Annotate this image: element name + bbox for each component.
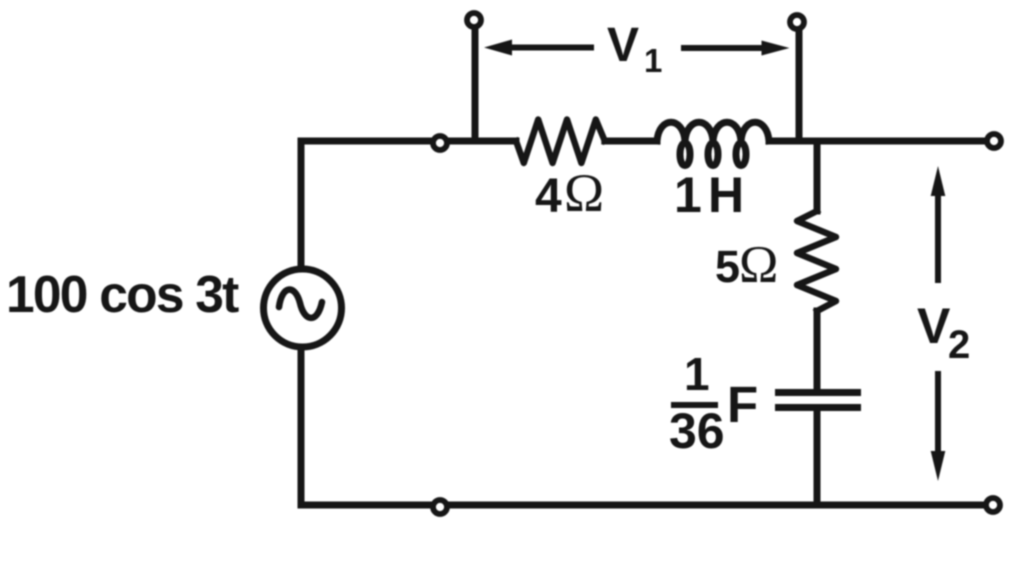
terminal node on top wire [433, 136, 447, 150]
wire left vertical below source [298, 347, 305, 505]
ac source circle [264, 269, 342, 347]
terminal node top right [987, 134, 1001, 148]
wire left vertical above source [298, 141, 305, 269]
svg-text:Ω: Ω [739, 236, 778, 294]
label fraction bar [671, 402, 718, 408]
V2 bottom arrow shaft [935, 371, 941, 455]
resistor R 5ohm vertical zigzag [797, 211, 836, 311]
wire below capacitor [814, 408, 821, 505]
inductor loop 1 [680, 143, 690, 166]
svg-text:2: 2 [948, 323, 970, 367]
svg-text:4: 4 [535, 170, 562, 223]
capacitor C top plate [775, 389, 861, 396]
V2 top arrow head [931, 166, 946, 196]
wire top from left corner to resistor [301, 138, 516, 145]
svg-text:1: 1 [684, 348, 710, 400]
capacitor C bottom plate [775, 404, 861, 411]
resistor R 4ohm zigzag [516, 120, 605, 164]
V1 right arrow head [762, 41, 790, 56]
V1 right arrow shaft [681, 45, 765, 51]
wire right branch top [814, 141, 821, 211]
svg-text:5: 5 [715, 241, 740, 292]
inductor loop 2 [708, 143, 718, 166]
wire V1 right terminal vertical [796, 28, 803, 141]
terminal node on bottom wire [433, 500, 447, 514]
inductor L 1H coil bumps [657, 122, 769, 141]
V2 bottom arrow head [931, 451, 946, 481]
svg-text:V: V [607, 19, 639, 72]
svg-text:Ω: Ω [564, 163, 604, 223]
terminal node V1 right [790, 15, 804, 29]
svg-text:1: 1 [674, 167, 702, 223]
svg-text:F: F [727, 376, 758, 433]
svg-text:H: H [708, 167, 744, 223]
wire between 5ohm and capacitor [814, 311, 821, 392]
svg-text:36: 36 [669, 403, 725, 459]
V1 left arrow shaft [507, 45, 594, 51]
wire between resistor and inductor [605, 138, 657, 145]
terminal node V1 left [467, 13, 481, 27]
V2 top arrow shaft [935, 192, 941, 283]
terminal node bottom right [986, 498, 1000, 512]
ac source sine wave [279, 290, 322, 318]
svg-text:100 cos 3t: 100 cos 3t [6, 265, 239, 323]
wire top from inductor to right terminal [769, 138, 994, 145]
wire bottom horizontal [301, 502, 993, 509]
svg-text:V: V [917, 298, 951, 354]
V1 left arrow head [484, 40, 512, 56]
wire V1 left terminal vertical [472, 26, 479, 141]
inductor loop 3 [736, 143, 746, 166]
svg-text:1: 1 [644, 42, 662, 79]
